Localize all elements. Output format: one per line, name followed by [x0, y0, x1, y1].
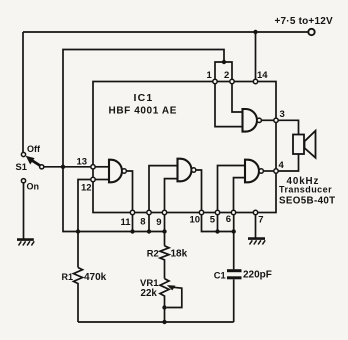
pin 2 [230, 79, 234, 83]
svg-text:HBF 4001 AE: HBF 4001 AE [109, 106, 177, 117]
wire: pin 12 left and down to R1 [78, 180, 91, 268]
wire: IC1d output to pin 4 [263, 170, 273, 172]
wire: bottom return rail [78, 321, 234, 323]
pin 3 [274, 118, 278, 122]
wire: pin 5 to gate IC1d upper input [218, 166, 246, 211]
wire: oscillator node rail to pins 1-2 [63, 50, 224, 167]
node: pin 5 / right bus [215, 229, 219, 233]
wire: pin 6 drop to C1 [233, 215, 235, 270]
pin 13 [91, 165, 95, 169]
wire: pin 2 to gate IC1c upper input [232, 84, 243, 112]
node: switch wire / oscillator feedback [61, 165, 65, 169]
wire: IC1c output to pin 3 [261, 119, 273, 121]
wire: pin 10 drop and right bus to pins 5,6 [202, 215, 234, 232]
wire: +V top supply rail [23, 31, 308, 33]
ground: below pin 7 [248, 239, 265, 245]
wire: feedback vertical and lower-left bus (pins 11,8,9) [63, 167, 165, 232]
pin 5 [215, 210, 219, 214]
svg-text:C1: C1 [214, 271, 226, 281]
wire: pin 7 to ground [255, 215, 257, 239]
svg-text:SEO5B-40T: SEO5B-40T [279, 196, 336, 207]
wire: pin 9 drop to R2 [164, 215, 166, 246]
NOR gate IC1a (pins 13,12 in / 11 out) [109, 160, 122, 183]
node: VR1 wiper / lower terminal [162, 305, 166, 309]
node: pin 11 / bus [130, 229, 134, 233]
pin 6 [231, 210, 235, 214]
node: VR1 leg / bottom rail [162, 320, 166, 324]
wire: pin 13 to gate IC1a upper input [95, 166, 109, 168]
svg-text:6: 6 [226, 214, 231, 225]
terminal: supply input [308, 29, 314, 35]
IC1 package outline [93, 82, 276, 213]
node: pin 9 / bus [162, 229, 166, 233]
svg-text:9: 9 [156, 217, 161, 228]
switch S1 arm with arrow [26, 156, 42, 167]
wire: pin 1 to gate IC1c lower input [215, 84, 243, 127]
pin 12 [91, 177, 95, 181]
svg-text:S1: S1 [16, 162, 27, 172]
wire: pin 3 to transducer top [278, 120, 298, 134]
svg-text:2: 2 [224, 70, 229, 81]
resistor R1 [74, 268, 83, 323]
inversion bubble of IC1b [192, 168, 196, 172]
wire: pin 9 to gate IC1b lower input [165, 179, 178, 211]
svg-text:4: 4 [279, 160, 285, 171]
potentiometer VR1 element [160, 279, 169, 322]
svg-text:220pF: 220pF [243, 270, 272, 281]
wire: pin 14 up to supply rail [255, 32, 257, 79]
svg-text:470k: 470k [84, 272, 107, 283]
svg-text:12: 12 [81, 183, 92, 194]
wire: S1 common to pin 13 [44, 166, 91, 168]
node: bus / R1 branch [76, 229, 80, 233]
svg-text:11: 11 [121, 217, 132, 228]
wire: pin 8 to gate IC1b upper input [149, 166, 178, 211]
wire: pin 8 drop to bus [148, 215, 150, 232]
transducer horn [305, 131, 316, 158]
svg-text:10: 10 [190, 215, 201, 226]
pin 14 [253, 79, 257, 83]
inversion bubble of IC1d [259, 169, 263, 173]
svg-text:18k: 18k [171, 249, 188, 260]
NOR gate IC1c (pins 1,2 in / 3 out) [243, 109, 258, 132]
pin 1 [213, 79, 217, 83]
svg-text:R2: R2 [147, 249, 159, 259]
S1 common contact [40, 165, 44, 169]
node: junction above pins 1-2 [222, 60, 226, 64]
S1 On contact [21, 179, 25, 183]
resistor R2 [160, 246, 169, 279]
wire: pin 12 to gate IC1a lower input [95, 179, 109, 181]
wire: supply rail down to S1 Off contact [22, 32, 24, 152]
svg-text:8: 8 [140, 217, 145, 228]
inversion bubble of IC1c [257, 118, 261, 122]
S1 Off contact [21, 152, 25, 156]
wire: IC1b output to pin 10 [196, 170, 202, 210]
NOR gate IC1b (pins 8,9 in / 10 out) [178, 159, 192, 182]
wire: pin 6 to gate IC1d lower input [234, 178, 246, 211]
wire: S1 On contact to ground [23, 183, 25, 240]
svg-text:+7·5 to+12V: +7·5 to+12V [275, 16, 333, 27]
svg-text:1: 1 [207, 70, 213, 81]
VR1 wiper arrow tied to lower terminal [167, 285, 182, 307]
node: supply rail / pin 14 [253, 30, 257, 34]
wire: IC1a output to pin 11 [126, 171, 132, 210]
svg-text:IC1: IC1 [134, 92, 154, 104]
wire: C1 lower lead to bottom rail [233, 279, 235, 322]
pin 10 [199, 210, 203, 214]
svg-text:On: On [27, 182, 40, 192]
transducer body [293, 135, 304, 155]
pin 4 [274, 169, 278, 173]
svg-text:22k: 22k [141, 288, 158, 299]
svg-text:Transducer: Transducer [279, 185, 332, 195]
pin 11 [130, 210, 134, 214]
wire: pin 11 drop to bus [132, 215, 134, 232]
svg-text:R1: R1 [62, 272, 74, 282]
wire: bracket tying pins 1 and 2 [215, 62, 232, 79]
node: pin 8 / bus [147, 229, 151, 233]
capacitor C1 plates [227, 271, 242, 278]
pin 8 [147, 210, 151, 214]
inversion bubble of IC1a [122, 169, 126, 173]
ground: below S1 [17, 240, 34, 246]
svg-text:3: 3 [280, 109, 285, 120]
pin 9 [162, 210, 166, 214]
svg-text:5: 5 [210, 215, 216, 226]
wire: pin 4 to transducer bottom [278, 154, 298, 171]
pin 7 [253, 210, 257, 214]
wire: pin 5 drop to right bus [217, 215, 219, 232]
node: pin 6 / right bus [232, 229, 236, 233]
NOR gate IC1d (pins 5,6 in / 4 out) [245, 160, 259, 183]
svg-text:13: 13 [77, 157, 88, 168]
svg-text:7: 7 [258, 215, 263, 226]
svg-text:14: 14 [257, 70, 268, 81]
svg-text:Off: Off [27, 144, 41, 154]
